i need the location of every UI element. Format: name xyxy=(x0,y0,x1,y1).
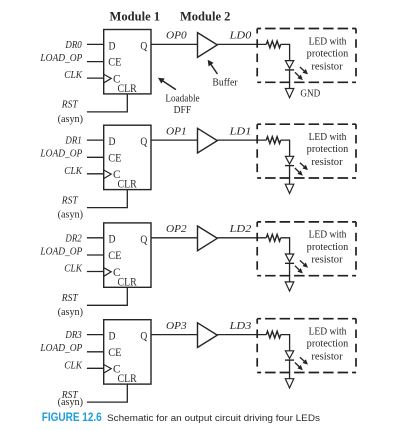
clock triangle pin C xyxy=(104,74,111,82)
dashed box: LED with protection resistor xyxy=(257,124,356,178)
LED cathode bar xyxy=(285,165,294,167)
svg-text:LD1: LD1 xyxy=(228,126,251,137)
wire resistor to LED xyxy=(281,335,290,351)
svg-text:RST: RST xyxy=(61,195,79,206)
svg-text:Schematic for an output circui: Schematic for an output circuit driving … xyxy=(107,413,320,423)
LED cathode bar xyxy=(285,69,294,71)
resistor (protection) xyxy=(266,331,280,338)
svg-text:D: D xyxy=(109,38,116,52)
ground symbol xyxy=(285,89,294,98)
svg-text:CLK: CLK xyxy=(64,360,83,371)
svg-text:Q: Q xyxy=(140,38,147,52)
annotation arrow to loadable DFF xyxy=(162,80,176,89)
svg-text:CE: CE xyxy=(108,345,121,359)
svg-text:CE: CE xyxy=(108,55,121,69)
LED emission arrow 2 xyxy=(295,266,300,271)
svg-text:CE: CE xyxy=(108,150,121,164)
wire CLK input xyxy=(87,271,104,273)
svg-text:Q: Q xyxy=(140,329,147,343)
svg-text:RST: RST xyxy=(61,100,79,111)
wire Q output node OP3 xyxy=(151,334,198,336)
svg-text:D: D xyxy=(109,134,116,148)
wire CE input xyxy=(87,351,104,353)
loadable DFF U2 xyxy=(104,125,151,189)
LED diode triangle xyxy=(285,254,293,262)
svg-text:Module 2: Module 2 xyxy=(180,8,231,23)
loadable DFF U3 xyxy=(104,223,151,287)
wire buffer output node LD3 xyxy=(217,334,266,336)
svg-text:Module 1: Module 1 xyxy=(110,8,161,23)
svg-text:DR1: DR1 xyxy=(65,136,82,147)
svg-text:OP0: OP0 xyxy=(166,31,187,42)
svg-text:DFF: DFF xyxy=(174,105,192,116)
LED emission arrow 2 xyxy=(295,168,300,173)
svg-text:LOAD_OP: LOAD_OP xyxy=(39,149,82,160)
dashed box: LED with protection resistor xyxy=(257,29,356,83)
wire LED to ground xyxy=(289,166,291,185)
wire D input xyxy=(87,334,104,336)
wire RST to CLR xyxy=(87,190,127,208)
LED diode triangle xyxy=(285,351,293,359)
wire buffer output node LD0 xyxy=(217,43,266,45)
wire LED to ground xyxy=(289,70,291,89)
svg-text:protection: protection xyxy=(307,339,349,350)
wire D input xyxy=(87,43,104,45)
svg-text:Q: Q xyxy=(140,134,147,148)
svg-text:Loadable: Loadable xyxy=(165,94,200,105)
svg-text:LED with: LED with xyxy=(309,230,347,241)
wire buffer output node LD2 xyxy=(217,237,266,239)
svg-text:OP3: OP3 xyxy=(166,321,187,332)
svg-text:DR3: DR3 xyxy=(65,330,82,341)
LED emission arrow 1 xyxy=(300,357,305,362)
buffer B4 xyxy=(198,323,218,348)
ground symbol xyxy=(285,282,294,291)
svg-text:LED with: LED with xyxy=(309,36,347,47)
svg-text:resistor: resistor xyxy=(311,61,343,72)
LED emission arrow 1 xyxy=(300,163,305,168)
svg-text:resistor: resistor xyxy=(311,157,343,168)
svg-text:DR2: DR2 xyxy=(65,233,82,244)
svg-text:(asyn): (asyn) xyxy=(58,114,83,125)
svg-text:CLR: CLR xyxy=(118,177,137,191)
resistor (protection) xyxy=(266,41,280,48)
wire LED to ground xyxy=(289,263,291,282)
svg-text:CLR: CLR xyxy=(118,81,137,95)
svg-text:CE: CE xyxy=(108,248,121,262)
svg-text:protection: protection xyxy=(307,49,349,60)
wire CLK input xyxy=(87,367,104,369)
svg-text:LOAD_OP: LOAD_OP xyxy=(39,53,82,64)
svg-text:CLR: CLR xyxy=(118,371,137,385)
svg-text:(asyn): (asyn) xyxy=(58,397,83,408)
wire Q output node OP2 xyxy=(151,237,198,239)
wire D input xyxy=(87,237,104,239)
annotation arrow to buffer xyxy=(211,64,218,74)
wire Q output node OP0 xyxy=(151,43,198,45)
wire CLK input xyxy=(87,77,104,79)
svg-text:protection: protection xyxy=(307,144,349,155)
buffer B2 xyxy=(198,128,218,153)
wire CE input xyxy=(87,156,104,158)
svg-text:(asyn): (asyn) xyxy=(58,210,83,221)
LED cathode bar xyxy=(285,359,294,361)
svg-text:Q: Q xyxy=(140,232,147,246)
LED emission arrow 2 xyxy=(295,363,300,368)
svg-text:D: D xyxy=(109,232,116,246)
svg-text:RST: RST xyxy=(61,293,79,304)
svg-text:CLK: CLK xyxy=(64,70,83,81)
svg-text:LED with: LED with xyxy=(309,327,347,338)
wire CE input xyxy=(87,61,104,63)
svg-text:LD3: LD3 xyxy=(228,321,251,332)
wire RST to CLR xyxy=(87,287,127,305)
loadable DFF U1 xyxy=(104,30,151,94)
wire resistor to LED xyxy=(281,238,290,254)
LED diode triangle xyxy=(285,156,293,164)
resistor (protection) xyxy=(266,137,280,144)
svg-text:resistor: resistor xyxy=(311,352,343,363)
wire RST to CLR xyxy=(87,384,127,402)
wire resistor to LED xyxy=(281,140,290,156)
svg-text:LOAD_OP: LOAD_OP xyxy=(39,343,82,354)
svg-text:D: D xyxy=(109,329,116,343)
svg-text:(asyn): (asyn) xyxy=(58,307,83,318)
wire CE input xyxy=(87,254,104,256)
svg-text:LOAD_OP: LOAD_OP xyxy=(39,246,82,257)
LED cathode bar xyxy=(285,262,294,264)
LED emission arrow 1 xyxy=(300,67,305,72)
svg-text:GND: GND xyxy=(300,88,320,99)
svg-text:protection: protection xyxy=(307,242,349,253)
wire LED to ground xyxy=(289,360,291,379)
ground symbol xyxy=(285,184,294,193)
svg-text:OP2: OP2 xyxy=(166,224,187,235)
LED emission arrow 2 xyxy=(295,72,300,77)
buffer B3 xyxy=(198,226,218,251)
loadable DFF U4 xyxy=(104,320,151,384)
svg-text:LD0: LD0 xyxy=(228,31,251,42)
svg-text:FIGURE 12.6: FIGURE 12.6 xyxy=(42,410,102,424)
svg-text:LD2: LD2 xyxy=(228,224,251,235)
LED emission arrow 1 xyxy=(300,260,305,265)
buffer B1 xyxy=(198,33,218,58)
svg-text:OP1: OP1 xyxy=(166,126,187,137)
wire CLK input xyxy=(87,173,104,175)
svg-text:CLK: CLK xyxy=(64,264,83,275)
resistor (protection) xyxy=(266,234,280,241)
wire resistor to LED xyxy=(281,44,290,60)
dashed box: LED with protection resistor xyxy=(257,319,356,373)
svg-text:CLK: CLK xyxy=(64,166,83,177)
svg-text:Buffer: Buffer xyxy=(212,78,238,89)
clock triangle pin C xyxy=(104,268,111,276)
ground symbol xyxy=(285,379,294,388)
clock triangle pin C xyxy=(104,365,111,373)
svg-text:CLR: CLR xyxy=(118,274,137,288)
clock triangle pin C xyxy=(104,170,111,178)
svg-text:DR0: DR0 xyxy=(65,40,82,51)
wire Q output node OP1 xyxy=(151,139,198,141)
wire RST to CLR xyxy=(87,94,127,112)
LED diode triangle xyxy=(285,61,293,69)
svg-text:LED with: LED with xyxy=(309,132,347,143)
svg-text:resistor: resistor xyxy=(311,255,343,266)
wire D input xyxy=(87,139,104,141)
wire buffer output node LD1 xyxy=(217,139,266,141)
dashed box: LED with protection resistor xyxy=(257,222,356,276)
